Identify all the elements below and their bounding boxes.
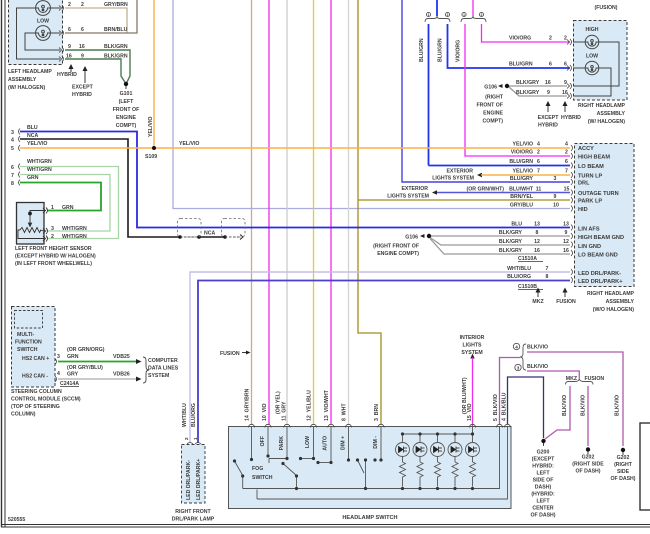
svg-text:1: 1 — [428, 13, 430, 17]
svg-text:LIGHTS SYSTEM: LIGHTS SYSTEM — [432, 176, 474, 182]
svg-text:10: 10 — [553, 203, 559, 209]
svg-text:SWITCH: SWITCH — [252, 475, 273, 481]
svg-text:2: 2 — [68, 2, 71, 8]
svg-text:NCA: NCA — [204, 231, 215, 237]
svg-text:OF DASH): OF DASH) — [530, 513, 555, 519]
svg-text:BLK/VIO: BLK/VIO — [615, 395, 621, 416]
svg-text:GRN: GRN — [62, 205, 74, 211]
svg-text:13: 13 — [534, 222, 540, 228]
svg-text:RIGHT HEADLAMP: RIGHT HEADLAMP — [587, 291, 635, 297]
svg-text:BLK/GRY: BLK/GRY — [499, 230, 523, 236]
svg-text:BRN/BLU: BRN/BLU — [104, 27, 128, 33]
svg-text:3: 3 — [57, 354, 60, 360]
svg-text:2: 2 — [81, 2, 84, 8]
svg-text:(RIGHT SIDE: (RIGHT SIDE — [572, 462, 604, 468]
svg-text:HIGH: HIGH — [586, 27, 599, 33]
svg-text:PARK LP: PARK LP — [578, 199, 602, 205]
svg-text:C1510B: C1510B — [518, 284, 537, 290]
svg-text:7: 7 — [537, 169, 540, 175]
svg-text:3: 3 — [11, 130, 14, 136]
svg-text:8: 8 — [536, 230, 539, 236]
svg-text:BLU/ORG: BLU/ORG — [507, 274, 531, 280]
svg-text:(HYBRID:: (HYBRID: — [531, 492, 555, 498]
svg-text:BLU/GRN: BLU/GRN — [419, 38, 425, 62]
svg-text:HIGH BEAM: HIGH BEAM — [578, 155, 610, 161]
svg-text:INTERIOR: INTERIOR — [460, 335, 485, 341]
svg-text:9: 9 — [81, 54, 84, 60]
svg-text:8: 8 — [546, 274, 549, 280]
svg-text:6: 6 — [564, 62, 567, 68]
svg-text:EXTERIOR: EXTERIOR — [446, 169, 473, 175]
svg-text:5 BLK/VIO: 5 BLK/VIO — [493, 394, 499, 421]
svg-text:9: 9 — [547, 90, 550, 96]
svg-text:9: 9 — [565, 230, 568, 236]
svg-text:ENGINE: ENGINE — [116, 115, 136, 121]
svg-text:CONTROL MODULE (SCCM): CONTROL MODULE (SCCM) — [11, 397, 81, 403]
svg-text:COMPT): COMPT) — [483, 119, 504, 125]
svg-text:5: 5 — [11, 146, 14, 152]
svg-text:2: 2 — [481, 13, 483, 17]
svg-text:WHT/GRN: WHT/GRN — [62, 234, 87, 240]
svg-text:FRONT OF: FRONT OF — [113, 107, 140, 113]
svg-text:BLU/WHT: BLU/WHT — [509, 187, 534, 193]
svg-text:LIN AFS: LIN AFS — [578, 227, 600, 233]
svg-text:9: 9 — [68, 44, 71, 50]
svg-text:LOW: LOW — [586, 54, 598, 60]
svg-text:HYBRID:: HYBRID: — [532, 464, 554, 470]
svg-text:(OR GRN/WHT): (OR GRN/WHT) — [467, 187, 505, 193]
svg-text:BLK/VIO: BLK/VIO — [581, 395, 587, 416]
svg-text:MKZ: MKZ — [532, 299, 544, 305]
svg-text:LIGHTS SYSTEM: LIGHTS SYSTEM — [387, 194, 429, 200]
svg-text:16: 16 — [79, 44, 85, 50]
svg-text:OUTAGE TURN: OUTAGE TURN — [578, 191, 619, 197]
svg-text:PARK: PARK — [279, 436, 285, 451]
svg-text:7: 7 — [565, 169, 568, 175]
svg-text:YEL/VIO: YEL/VIO — [513, 169, 533, 175]
svg-text:G106: G106 — [484, 85, 497, 91]
svg-text:LEFT HEADLAMP: LEFT HEADLAMP — [8, 69, 52, 75]
svg-text:LED DRL/PARK-: LED DRL/PARK- — [186, 460, 192, 500]
svg-text:WHT/GRN: WHT/GRN — [27, 159, 52, 165]
svg-text:2: 2 — [447, 13, 449, 17]
svg-text:BLU/ORG: BLU/ORG — [191, 403, 197, 427]
svg-text:HIGH BEAM GND: HIGH BEAM GND — [578, 235, 624, 241]
svg-text:HYBRID: HYBRID — [561, 115, 581, 121]
svg-text:LOW: LOW — [37, 19, 49, 25]
svg-text:AUTO: AUTO — [323, 436, 329, 451]
svg-text:LO BEAM: LO BEAM — [578, 164, 604, 170]
svg-text:520555: 520555 — [8, 517, 25, 523]
svg-text:TURN LP: TURN LP — [578, 174, 603, 180]
svg-text:(EXCEPT: (EXCEPT — [532, 457, 555, 463]
svg-text:16: 16 — [562, 90, 568, 96]
svg-text:9: 9 — [554, 194, 557, 200]
svg-text:BLK/GRN: BLK/GRN — [104, 44, 128, 50]
svg-text:(RIGHT FRONT OF: (RIGHT FRONT OF — [373, 244, 419, 250]
svg-text:7: 7 — [546, 266, 549, 272]
svg-text:15 VIO: 15 VIO — [467, 403, 473, 421]
svg-text:DIM -: DIM - — [373, 436, 379, 449]
svg-text:LED DRL/PARK-: LED DRL/PARK- — [578, 271, 621, 277]
svg-text:OF DASH): OF DASH) — [575, 469, 600, 475]
svg-text:LOW: LOW — [305, 436, 311, 448]
svg-text:G202: G202 — [617, 455, 630, 461]
svg-text:YEL/VIO: YEL/VIO — [27, 141, 47, 147]
svg-text:WHT/BLU: WHT/BLU — [182, 403, 188, 427]
svg-text:FUNCTION: FUNCTION — [15, 340, 42, 346]
svg-text:G106: G106 — [405, 235, 418, 241]
svg-text:4 BLK/BLU: 4 BLK/BLU — [502, 392, 508, 421]
svg-text:1: 1 — [193, 437, 198, 440]
svg-text:LED DRL/PARK+: LED DRL/PARK+ — [196, 459, 202, 500]
svg-text:BLU: BLU — [27, 125, 38, 131]
svg-text:HYBRID: HYBRID — [538, 123, 558, 129]
svg-text:EXTERIOR: EXTERIOR — [401, 186, 428, 192]
svg-text:13 VIO/WHT: 13 VIO/WHT — [324, 389, 330, 421]
svg-text:8: 8 — [11, 181, 14, 187]
svg-text:BLU/GRN: BLU/GRN — [509, 159, 533, 165]
svg-text:YEL/VIO: YEL/VIO — [179, 141, 199, 147]
svg-text:HS2 CAN -: HS2 CAN - — [22, 374, 48, 380]
svg-text:BLU: BLU — [511, 222, 522, 228]
svg-text:GRN: GRN — [67, 354, 79, 360]
svg-text:ENGINE COMPT): ENGINE COMPT) — [377, 251, 419, 257]
svg-text:(EXCEPT HYBRID W/ HALOGEN): (EXCEPT HYBRID W/ HALOGEN) — [15, 254, 96, 260]
svg-text:YEL/VIO: YEL/VIO — [148, 117, 154, 137]
svg-text:GRY/BLU: GRY/BLU — [510, 203, 533, 209]
svg-text:LEFT: LEFT — [537, 471, 551, 477]
svg-text:12: 12 — [534, 239, 540, 245]
svg-text:(W/ HALOGEN): (W/ HALOGEN) — [588, 119, 625, 125]
svg-text:FUSION: FUSION — [556, 299, 576, 305]
svg-text:ACCY: ACCY — [578, 146, 594, 152]
svg-text:BLK/GRY: BLK/GRY — [516, 80, 540, 86]
svg-text:C1510A: C1510A — [518, 256, 537, 262]
svg-text:WHT/GRN: WHT/GRN — [27, 167, 52, 173]
svg-text:SIDE: SIDE — [617, 469, 630, 475]
svg-text:16: 16 — [66, 54, 72, 60]
svg-text:WHT/BLU: WHT/BLU — [507, 266, 531, 272]
svg-text:2: 2 — [184, 437, 189, 440]
svg-text:(TOP OF STEERING: (TOP OF STEERING — [11, 404, 60, 410]
svg-text:GRY: GRY — [67, 372, 79, 378]
svg-text:SWITCH: SWITCH — [17, 347, 38, 353]
svg-text:7: 7 — [11, 173, 14, 179]
svg-text:G202: G202 — [582, 455, 595, 461]
svg-text:BLU/GRY: BLU/GRY — [510, 176, 534, 182]
svg-text:(RIGHT: (RIGHT — [614, 462, 633, 468]
svg-text:BLU/GRN: BLU/GRN — [438, 38, 444, 62]
svg-text:9: 9 — [564, 80, 567, 86]
svg-text:6: 6 — [549, 62, 552, 68]
svg-text:HYBRID: HYBRID — [57, 72, 77, 78]
svg-text:(W/O HALOGEN): (W/O HALOGEN) — [593, 307, 634, 313]
svg-text:4: 4 — [565, 142, 568, 148]
svg-text:C2414A: C2414A — [60, 381, 79, 387]
svg-text:4: 4 — [537, 142, 540, 148]
svg-text:16: 16 — [534, 248, 540, 254]
svg-text:DRL/PARK LAMP: DRL/PARK LAMP — [172, 517, 215, 523]
svg-text:(W/ HALOGEN): (W/ HALOGEN) — [8, 85, 45, 91]
svg-text:ASSEMBLY: ASSEMBLY — [606, 299, 635, 305]
svg-text:DIM +: DIM + — [341, 436, 347, 450]
svg-text:12 YEL/BLU: 12 YEL/BLU — [307, 390, 313, 421]
svg-text:FOG: FOG — [252, 466, 263, 472]
svg-text:1: 1 — [51, 205, 54, 211]
svg-text:HS2 CAN +: HS2 CAN + — [22, 356, 49, 362]
svg-text:RIGHT FRONT: RIGHT FRONT — [175, 509, 211, 515]
svg-text:YEL/VIO: YEL/VIO — [513, 142, 533, 148]
svg-text:15: 15 — [564, 187, 570, 193]
svg-text:CENTER: CENTER — [532, 506, 554, 512]
svg-text:(OR GRY/BLU): (OR GRY/BLU) — [67, 365, 103, 371]
svg-text:2: 2 — [51, 234, 54, 240]
svg-text:G101: G101 — [120, 91, 133, 97]
svg-text:13: 13 — [563, 222, 569, 228]
svg-text:BLK/GRY: BLK/GRY — [499, 248, 523, 254]
svg-text:MULTI-: MULTI- — [17, 332, 34, 338]
svg-text:4: 4 — [11, 138, 14, 144]
svg-text:BLK/GRY: BLK/GRY — [499, 239, 523, 245]
svg-text:HYBRID: HYBRID — [72, 92, 92, 98]
svg-text:SIDE OF: SIDE OF — [533, 478, 554, 484]
svg-text:1: 1 — [463, 13, 465, 17]
svg-text:4: 4 — [57, 371, 60, 377]
svg-text:2: 2 — [565, 150, 568, 156]
svg-text:COMPT): COMPT) — [116, 123, 137, 129]
svg-text:NCA: NCA — [27, 133, 38, 139]
svg-text:3 BRN: 3 BRN — [374, 404, 380, 421]
svg-text:11 GRY: 11 GRY — [282, 401, 288, 421]
svg-text:3: 3 — [51, 226, 54, 232]
svg-text:VIO/ORG: VIO/ORG — [511, 150, 533, 156]
svg-text:EXCEPT: EXCEPT — [72, 85, 94, 91]
svg-text:6: 6 — [81, 27, 84, 33]
svg-text:BLU/GRN: BLU/GRN — [509, 62, 533, 68]
svg-text:COMPUTER: COMPUTER — [148, 358, 178, 364]
svg-text:VDB25: VDB25 — [113, 354, 130, 360]
svg-text:6: 6 — [537, 159, 540, 165]
svg-text:BRN/YEL: BRN/YEL — [510, 194, 534, 200]
svg-text:RIGHT HEADLAMP: RIGHT HEADLAMP — [578, 103, 626, 109]
svg-text:(IN LEFT FRONT WHEELWELL): (IN LEFT FRONT WHEELWELL) — [15, 261, 92, 267]
svg-text:8 WHT: 8 WHT — [342, 403, 348, 421]
svg-text:LED DRL/PARK+: LED DRL/PARK+ — [578, 279, 623, 285]
svg-text:S109: S109 — [145, 154, 157, 160]
svg-text:12: 12 — [563, 239, 569, 245]
svg-text:VIO/ORG: VIO/ORG — [456, 40, 462, 62]
svg-text:LO BEAM GND: LO BEAM GND — [578, 253, 618, 259]
svg-text:WHT/GRN: WHT/GRN — [62, 226, 87, 232]
svg-text:LIN GND: LIN GND — [578, 244, 601, 250]
svg-text:BLK/GRN: BLK/GRN — [104, 54, 128, 60]
svg-text:(LEFT: (LEFT — [119, 99, 135, 105]
svg-text:VDB26: VDB26 — [113, 372, 130, 378]
svg-text:(RIGHT: (RIGHT — [485, 95, 504, 101]
svg-text:DATA LINES: DATA LINES — [148, 366, 179, 372]
svg-text:6: 6 — [565, 159, 568, 165]
svg-text:DASH): DASH) — [535, 485, 552, 491]
svg-text:3: 3 — [517, 366, 520, 371]
svg-text:LEFT FRONT HEIGHT SENSOR: LEFT FRONT HEIGHT SENSOR — [15, 246, 92, 252]
svg-text:DRL: DRL — [578, 181, 590, 187]
svg-text:HEADLAMP SWITCH: HEADLAMP SWITCH — [342, 515, 397, 521]
svg-text:FRONT OF: FRONT OF — [476, 103, 503, 109]
svg-text:LIGHTS: LIGHTS — [462, 343, 482, 349]
svg-text:4: 4 — [515, 345, 518, 350]
svg-text:BLK/VIO: BLK/VIO — [527, 345, 548, 351]
svg-text:SYSTEM: SYSTEM — [148, 373, 169, 379]
svg-text:G200: G200 — [537, 450, 550, 456]
svg-text:COLUMN): COLUMN) — [11, 412, 36, 418]
svg-text:16: 16 — [545, 80, 551, 86]
svg-text:OFF: OFF — [260, 436, 266, 446]
svg-text:BLK/GRY: BLK/GRY — [516, 90, 540, 96]
svg-text:11: 11 — [536, 187, 542, 193]
svg-text:ENGINE: ENGINE — [483, 111, 503, 117]
svg-text:ASSEMBLY: ASSEMBLY — [597, 111, 626, 117]
svg-text:6: 6 — [68, 27, 71, 33]
svg-text:2: 2 — [537, 150, 540, 156]
svg-text:EXCEPT: EXCEPT — [538, 115, 560, 121]
svg-text:BLK/VIO: BLK/VIO — [562, 395, 568, 416]
svg-text:10 VIO: 10 VIO — [262, 403, 268, 421]
svg-text:16: 16 — [563, 248, 569, 254]
svg-text:(OR GRN/ORG): (OR GRN/ORG) — [67, 347, 105, 353]
svg-text:BLK/VIO: BLK/VIO — [527, 364, 548, 370]
svg-text:ASSEMBLY: ASSEMBLY — [8, 77, 37, 83]
svg-text:GRN: GRN — [27, 175, 39, 181]
svg-text:2: 2 — [564, 36, 567, 42]
svg-text:LEFT: LEFT — [537, 499, 551, 505]
svg-text:VIO/ORG: VIO/ORG — [509, 36, 531, 42]
svg-text:STEERING COLUMN: STEERING COLUMN — [11, 389, 62, 395]
svg-text:2: 2 — [549, 36, 552, 42]
svg-text:HID: HID — [578, 207, 588, 213]
svg-text:OF DASH): OF DASH) — [610, 476, 635, 482]
svg-text:3: 3 — [554, 176, 557, 182]
svg-text:GRY/BRN: GRY/BRN — [104, 2, 128, 8]
svg-text:14 GRY/BRN: 14 GRY/BRN — [245, 388, 251, 421]
svg-text:FUSION: FUSION — [220, 351, 240, 357]
svg-text:(FUSION): (FUSION) — [594, 5, 617, 11]
svg-text:6: 6 — [11, 165, 14, 171]
